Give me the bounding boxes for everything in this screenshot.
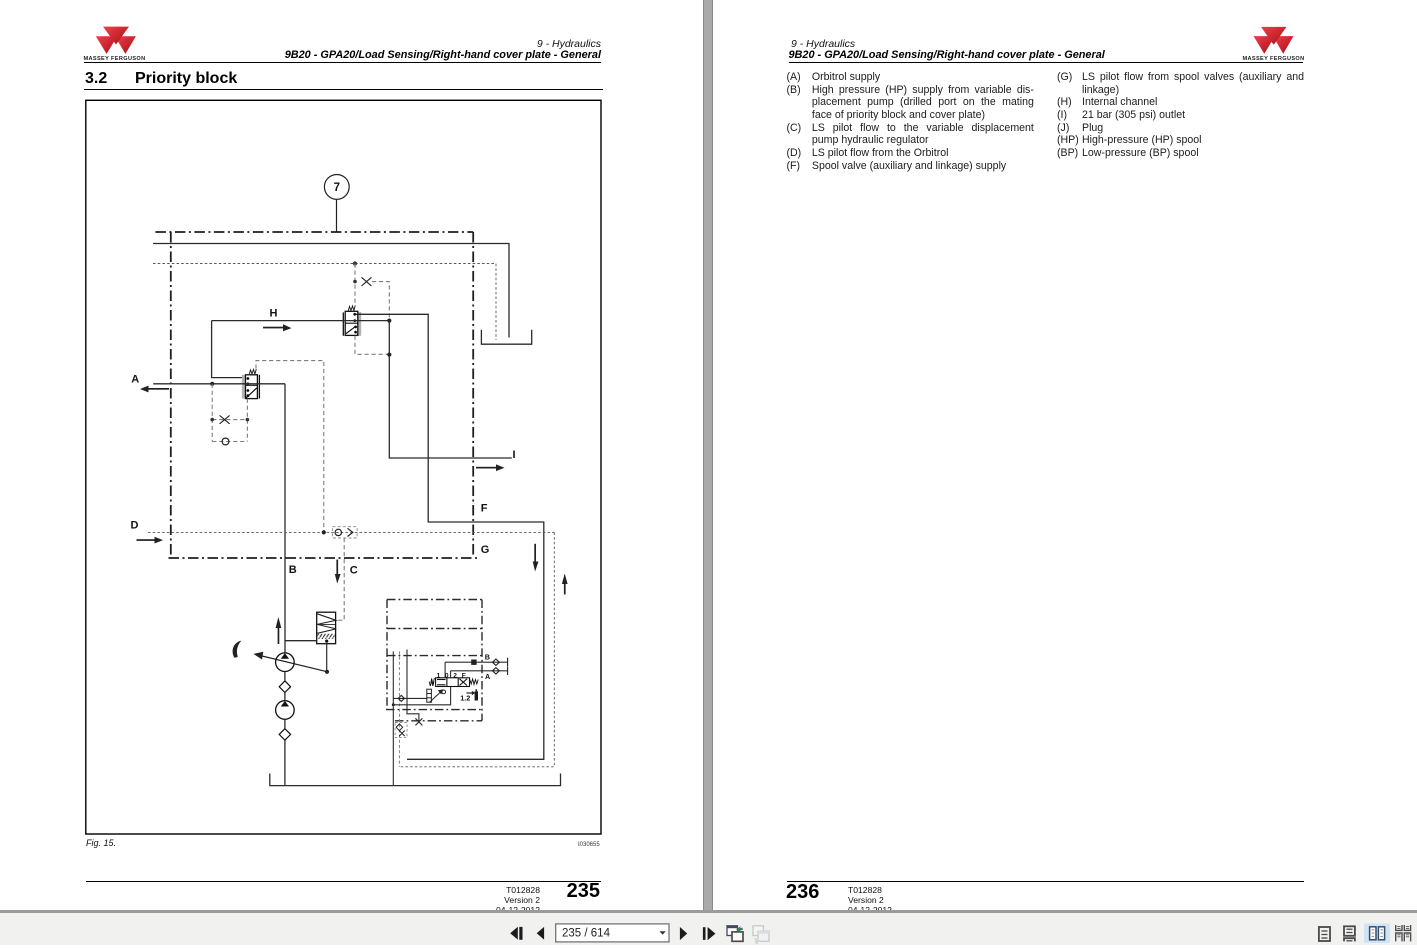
node A junction: [210, 382, 214, 386]
check valve poppet: [398, 695, 404, 701]
wire valve A damping box (dashed): [212, 384, 247, 442]
legend right column: [1057, 71, 1087, 160]
check valve diamond 1: [279, 681, 290, 693]
pressure regulator (relief valve): [317, 612, 337, 644]
arrow flow D: [137, 537, 164, 544]
node D junction: [322, 530, 326, 534]
svg-text:A: A: [485, 672, 490, 681]
wire port B line: [445, 661, 508, 663]
wire F spool supply: [358, 314, 544, 759]
wire pump to regulator: [285, 640, 317, 642]
arrow flow B up: [276, 617, 282, 644]
continuous layout button: [1344, 926, 1355, 941]
arrow flow A: [140, 386, 169, 393]
node damping taps: [210, 418, 214, 422]
priority block boundary (dash-dot box): [155, 232, 477, 558]
wire port A riser: [450, 671, 452, 678]
wire suction to tank: [284, 740, 286, 785]
node swash link: [325, 670, 329, 674]
wire port A line: [451, 670, 508, 672]
filter element: [427, 689, 432, 702]
svg-text:D: D: [131, 520, 139, 532]
wire D LS line (dotted): [148, 531, 554, 533]
svg-text:1: 1: [437, 672, 441, 679]
wire H supply: [212, 320, 390, 322]
node 7 balloon: [324, 175, 349, 200]
tank: [481, 330, 531, 344]
node drain tap: [392, 703, 395, 706]
svg-text:F: F: [462, 672, 466, 679]
continuous facing layout button: [1396, 925, 1411, 941]
accumulator bottle: [475, 689, 478, 700]
svg-text:A: A: [131, 373, 139, 385]
page number input: [556, 924, 669, 942]
svg-text:W: W: [429, 682, 435, 688]
wire port B riser: [444, 662, 446, 678]
spool valve section internals: [392, 650, 508, 786]
figure box + schematic drawn in one SVG covering the page: [0, 0, 703, 911]
svg-text:I: I: [513, 449, 516, 461]
wire gallery 3: [407, 650, 419, 722]
svg-text:B: B: [485, 653, 490, 662]
svg-text:F: F: [481, 503, 488, 515]
check valve sub box: [395, 723, 407, 738]
wire pump string: [284, 672, 286, 681]
arrow flow I: [476, 464, 505, 471]
variable arrow to spool: [430, 689, 444, 702]
arrow flow H: [263, 324, 292, 331]
tank sump bracket: [270, 774, 561, 786]
cover plate block boundary (dash-dot): [386, 600, 482, 721]
last page button: [703, 927, 706, 940]
pump P1 (variable displacement): [276, 653, 295, 672]
wire I outlet: [389, 321, 512, 458]
next view button (disabled): [753, 926, 769, 945]
logo left page: [83, 24, 153, 64]
wire pilot feed: [393, 697, 427, 699]
svg-text:2: 2: [453, 672, 457, 679]
port A terminal: [507, 667, 509, 676]
wire A outlet: [153, 383, 285, 385]
wire pilot to valve H: [354, 264, 356, 307]
check valve diamond 2: [279, 729, 290, 741]
check valve ball valve A branch: [222, 438, 229, 445]
figure frame: [86, 100, 601, 834]
wire C pilot (dashed to regulator): [336, 538, 344, 620]
variable displacement arrow through pump: [254, 652, 328, 672]
arrow flow G down: [533, 544, 539, 572]
svg-text:C: C: [350, 565, 358, 577]
previous page button: [537, 927, 544, 940]
svg-text:7: 7: [334, 182, 340, 194]
svg-text:235 / 614: 235 / 614: [562, 928, 611, 940]
svg-text:H: H: [270, 308, 278, 320]
wire B line to pump: [284, 384, 286, 653]
arrow flow up right: [562, 574, 568, 595]
wire HP supply to tank: [153, 244, 509, 338]
facing layout button (active): [1364, 924, 1390, 944]
wire diamond1 to P2: [284, 693, 286, 701]
node I tap: [387, 319, 391, 323]
prime mover crescent: [233, 641, 242, 658]
port B terminal: [507, 658, 509, 667]
wire restrictor branch: [372, 282, 389, 321]
valve A (LS/BP spool): [242, 369, 260, 399]
node LS junction: [353, 261, 357, 265]
svg-text:B: B: [289, 564, 297, 576]
wire LS dotted line to tank: [153, 264, 496, 341]
restrictor (orifice) above valve H: [362, 277, 372, 286]
valve H (HP priority spool): [343, 306, 361, 336]
wire H to valve A: [212, 321, 246, 378]
wire spool return (dotted box right): [399, 532, 554, 766]
check valve on D line: [332, 527, 357, 538]
wire gallery 2 (dashed): [398, 651, 400, 766]
spool valve body: [431, 678, 479, 687]
orifice port B: [472, 660, 476, 664]
previous view button: [727, 926, 743, 942]
restrictor valve A branch: [220, 415, 230, 423]
arrow flow C: [335, 560, 341, 584]
svg-text:1.2: 1.2: [460, 694, 470, 703]
next page button: [680, 927, 687, 940]
wire balloon leader: [336, 199, 338, 231]
arrow 1.2: [467, 691, 476, 696]
wire gallery 1: [392, 651, 394, 785]
wire spool drain: [393, 687, 450, 705]
node drain junction: [387, 353, 391, 357]
wire valve H drain (dashed): [355, 336, 389, 355]
check diamond port B: [492, 659, 499, 665]
check diamond port A: [492, 668, 499, 674]
legend left column: [787, 71, 829, 172]
single page layout button: [1319, 927, 1330, 941]
wire regulator to swash control: [326, 643, 328, 672]
node pilot tap: [353, 280, 357, 284]
plug X: [415, 718, 422, 725]
svg-text:G: G: [481, 544, 490, 556]
wire valve A pilot (dashed loop to D line): [256, 361, 324, 533]
pilot ball: [442, 690, 446, 694]
first page button: [510, 927, 518, 940]
logo right page: [1240, 24, 1310, 64]
wire P2 to diamond2: [284, 719, 286, 728]
pump P2 (fixed): [276, 701, 295, 720]
